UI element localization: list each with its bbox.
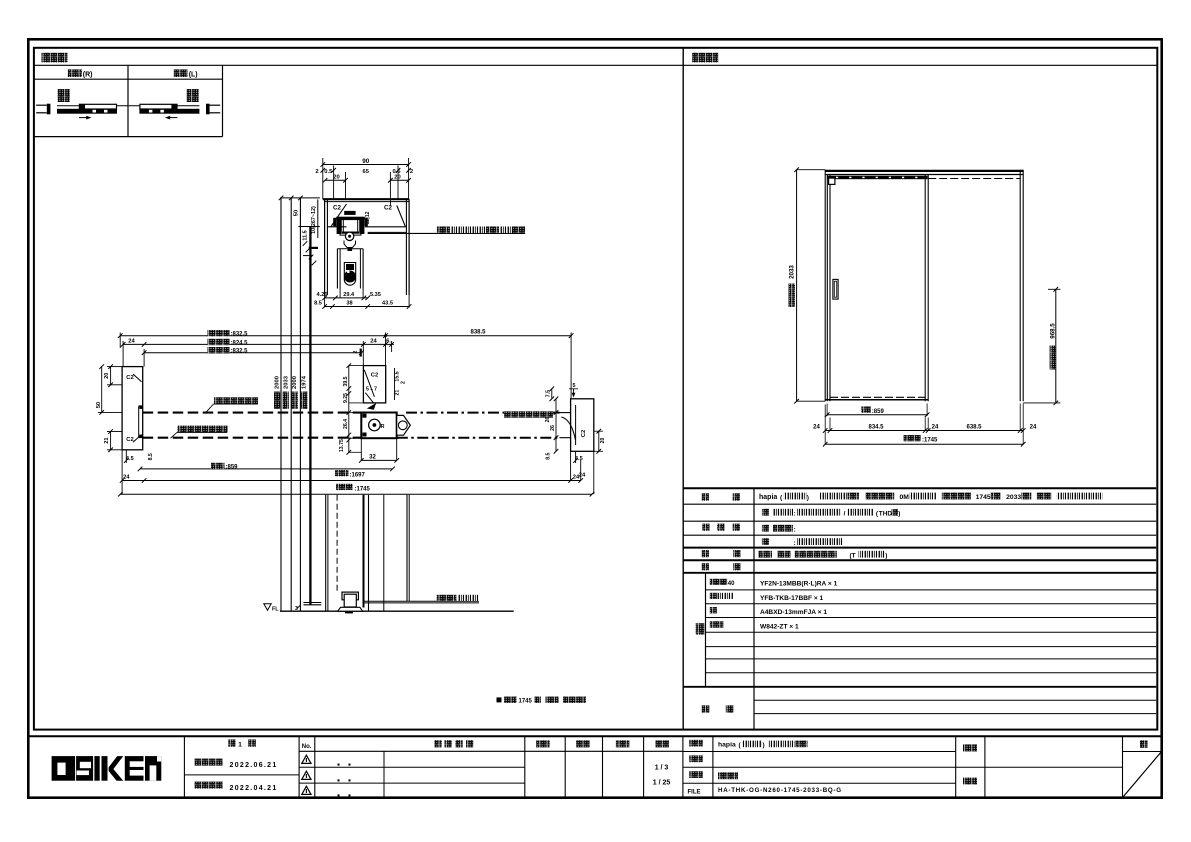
svg-text:26.4: 26.4 — [343, 419, 349, 429]
svg-text:968.5: 968.5 — [1049, 323, 1056, 339]
svg-text:26: 26 — [550, 425, 556, 431]
svg-text:C2: C2 — [126, 375, 133, 381]
svg-text:24: 24 — [128, 339, 135, 345]
svg-text:638.5: 638.5 — [966, 424, 982, 430]
svg-text:0M: 0M — [900, 494, 910, 501]
svg-text:C2: C2 — [371, 373, 378, 379]
svg-text:21: 21 — [394, 390, 400, 396]
svg-text:hapia: hapia — [718, 742, 736, 749]
svg-text:2033: 2033 — [788, 265, 795, 279]
svg-text:21: 21 — [104, 437, 110, 443]
svg-text:1 / 3: 1 / 3 — [655, 764, 669, 771]
svg-text:2000: 2000 — [275, 376, 281, 389]
svg-text:1745: 1745 — [519, 698, 533, 704]
svg-text:5: 5 — [573, 383, 576, 389]
svg-text:24: 24 — [813, 424, 820, 430]
svg-text:26: 26 — [545, 417, 551, 423]
svg-text:): ) — [807, 494, 809, 501]
svg-text:20: 20 — [394, 174, 400, 180]
svg-text:90: 90 — [362, 158, 370, 165]
svg-text:YF2N-13MBB(R·L)RA × 1: YF2N-13MBB(R·L)RA × 1 — [760, 580, 838, 587]
svg-text:7.5: 7.5 — [545, 390, 551, 397]
svg-text::832.5: :832.5 — [231, 332, 249, 338]
svg-text:8.5: 8.5 — [314, 300, 322, 306]
svg-text:2033: 2033 — [1006, 494, 1021, 501]
svg-text::824.5: :824.5 — [231, 340, 249, 346]
svg-text:2033: 2033 — [283, 375, 289, 389]
svg-text:39.5: 39.5 — [343, 376, 349, 386]
svg-text:hapia: hapia — [759, 494, 777, 501]
svg-text:12|12: 12|12 — [365, 211, 371, 224]
svg-text:838.5: 838.5 — [470, 330, 486, 336]
svg-text:4.5: 4.5 — [575, 456, 583, 462]
svg-text:24: 24 — [932, 424, 939, 430]
svg-text:YFB-TKB-17BBF × 1: YFB-TKB-17BBF × 1 — [760, 595, 824, 602]
svg-text:10(267~12): 10(267~12) — [311, 206, 317, 234]
svg-text:FL: FL — [272, 607, 279, 613]
svg-text::859: :859 — [226, 465, 239, 471]
svg-text:W842-ZT × 1: W842-ZT × 1 — [760, 624, 799, 631]
svg-text::: : — [794, 511, 796, 518]
svg-text:20: 20 — [600, 438, 606, 444]
svg-text:1745: 1745 — [976, 494, 991, 501]
svg-text:3: 3 — [295, 606, 298, 612]
svg-text:38: 38 — [346, 300, 352, 306]
svg-text:THD: THD — [879, 511, 893, 518]
svg-text:24: 24 — [1030, 424, 1037, 430]
svg-text:A4BXD-13mmFJA × 1: A4BXD-13mmFJA × 1 — [760, 609, 827, 616]
svg-text:24: 24 — [123, 475, 130, 481]
svg-text:8.5: 8.5 — [545, 452, 551, 459]
svg-text:6.: 6. — [386, 339, 391, 345]
svg-text:C2: C2 — [333, 204, 341, 211]
svg-text::1697: :1697 — [350, 472, 366, 478]
svg-text:20: 20 — [333, 174, 339, 180]
svg-text:No.: No. — [302, 744, 312, 750]
svg-text:50: 50 — [96, 402, 102, 408]
svg-text:(R): (R) — [83, 71, 93, 78]
svg-text:4.5: 4.5 — [126, 456, 134, 462]
svg-text:C2: C2 — [126, 437, 133, 443]
svg-text:5→7: 5→7 — [366, 387, 377, 393]
svg-text:65: 65 — [362, 169, 369, 175]
svg-text:): ) — [763, 742, 765, 749]
svg-text:20: 20 — [104, 373, 110, 379]
svg-text:4.25: 4.25 — [317, 292, 328, 298]
svg-text:24: 24 — [573, 475, 580, 481]
svg-text::1745: :1745 — [922, 438, 938, 444]
svg-text::859: :859 — [872, 409, 885, 415]
svg-text:2: 2 — [315, 169, 318, 175]
svg-text:2: 2 — [353, 350, 359, 353]
svg-text:R: R — [380, 424, 384, 430]
svg-text:(T: (T — [850, 553, 856, 560]
svg-text:29.4: 29.4 — [343, 292, 355, 298]
svg-text:/: / — [844, 511, 846, 518]
svg-text:40: 40 — [728, 581, 735, 587]
svg-text:5.35: 5.35 — [370, 292, 381, 298]
svg-text::: : — [794, 540, 796, 547]
svg-text:C2: C2 — [581, 430, 587, 437]
svg-text:): ) — [885, 553, 887, 560]
svg-text:FILE: FILE — [688, 789, 701, 795]
svg-text:2: 2 — [410, 169, 413, 175]
svg-text:0.5: 0.5 — [324, 169, 333, 175]
svg-text:834.5: 834.5 — [868, 424, 884, 430]
svg-text:1974: 1974 — [302, 375, 308, 389]
svg-text:): ) — [898, 511, 900, 518]
svg-text:2022.04.21: 2022.04.21 — [230, 785, 278, 792]
svg-text:HA-THK-OG-N260-1745-2033-BQ-G: HA-THK-OG-N260-1745-2033-BQ-G — [718, 787, 842, 794]
svg-text:1: 1 — [238, 742, 242, 749]
svg-text:13.75: 13.75 — [339, 439, 345, 452]
svg-text:9.25: 9.25 — [343, 393, 349, 403]
svg-text:43.5: 43.5 — [382, 300, 393, 306]
svg-text:11.5: 11.5 — [303, 230, 309, 240]
svg-text:8.5: 8.5 — [148, 453, 154, 460]
svg-text:2000: 2000 — [292, 376, 298, 389]
svg-text:(L): (L) — [189, 71, 198, 78]
svg-text:2: 2 — [400, 381, 406, 384]
svg-text::832.5: :832.5 — [231, 349, 249, 355]
svg-text:24: 24 — [370, 339, 377, 345]
svg-text:1 / 25: 1 / 25 — [653, 780, 671, 787]
svg-text:C2: C2 — [384, 204, 392, 211]
svg-text:15.5: 15.5 — [394, 371, 400, 381]
svg-text:2022.06.21: 2022.06.21 — [230, 762, 278, 769]
svg-text::: : — [794, 527, 796, 534]
svg-text:32: 32 — [369, 454, 376, 460]
svg-text:50: 50 — [294, 210, 300, 216]
svg-text::1745: :1745 — [355, 486, 371, 492]
svg-text:24: 24 — [579, 472, 586, 478]
